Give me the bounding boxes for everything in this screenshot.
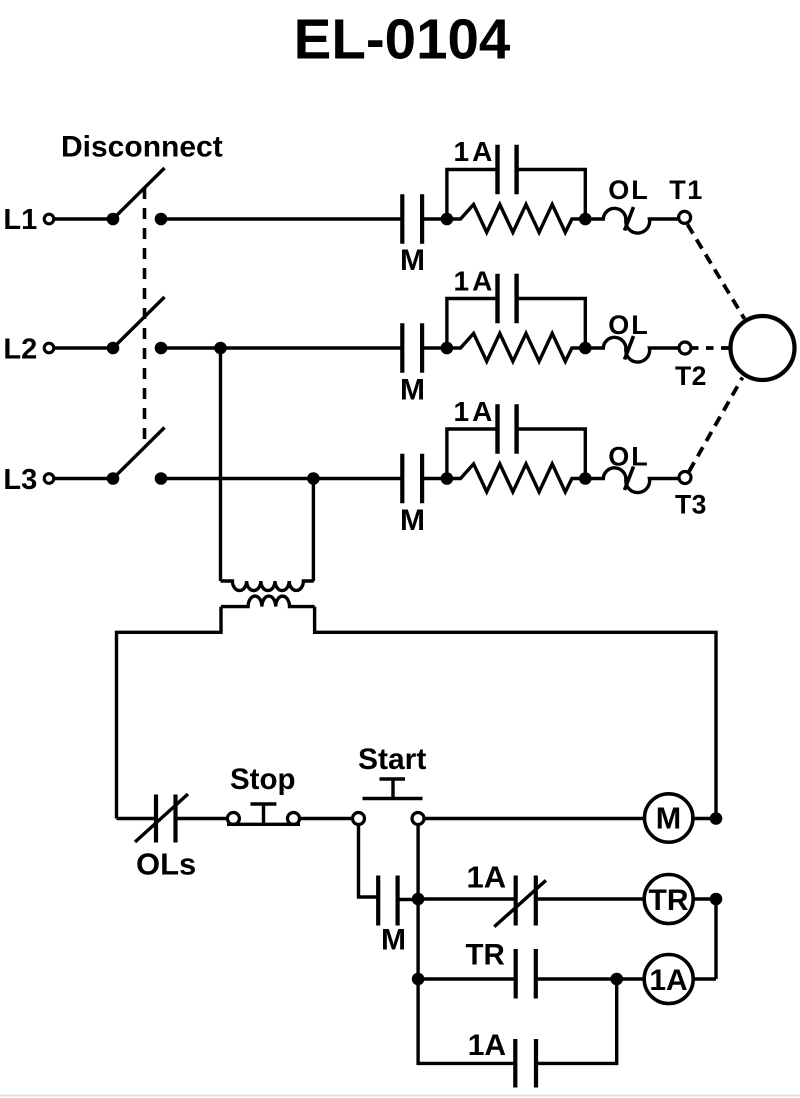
wire L3 terminal to switch [55,477,114,480]
overload heater OL pole 3 [585,468,679,493]
contact 1A normally closed [494,876,546,927]
wire to contact 1A NC [418,897,516,900]
capacitor-contact 1A bypass pole 1 [447,145,585,219]
disconnect switch blade pole 3 [113,428,165,479]
wire L1 terminal to switch [55,217,114,220]
overload heater OL pole 2 [585,337,679,362]
junction dot resistor right pole 3 [579,472,592,485]
terminal L1 [44,214,54,224]
svg-text:M: M [381,923,406,956]
junction dot resistor right pole 2 [579,342,592,355]
junction dot L2 switch right [155,342,168,355]
terminal L3 [44,474,54,484]
contact TR timed [516,949,536,999]
wire coil TR to rail [693,897,716,900]
contact M pole 3 [402,454,447,504]
contact M pole 2 [402,323,447,373]
svg-text:EL-0104: EL-0104 [294,8,511,71]
svg-text:1A: 1A [649,964,687,997]
terminal T3 [679,472,691,484]
junction dot 1A bypass right [610,973,623,986]
svg-text:TR: TR [649,884,689,917]
wire transformer primary left tap [219,348,222,581]
contact M pole 1 [402,194,447,244]
wire L1 to contact M [161,217,402,220]
coil TR [644,875,693,924]
svg-text:1A: 1A [468,1029,506,1062]
wire Start left leg down [359,825,379,898]
junction dot L1 switch left [107,213,120,226]
dashed lead T2 to motor [691,346,729,350]
wire secondary right to control rail [315,607,716,819]
svg-text:1A: 1A [454,265,496,296]
svg-text:OL: OL [608,310,650,340]
pushbutton Start [353,779,425,825]
contact M auxiliary [378,876,418,926]
coil M [645,794,693,842]
wire transformer primary right tap [312,479,315,582]
motor circle [731,316,795,380]
svg-text:M: M [400,504,425,537]
transformer primary winding [221,581,314,591]
svg-text:1A: 1A [467,859,507,894]
terminal T2 [679,342,691,354]
wire to contact TR [418,977,516,980]
junction dot M aux to TR branch [412,893,425,906]
junction dot L2 switch left [107,342,120,355]
resistor pole 1 [447,204,585,232]
disconnect mechanical linkage dashed line [143,188,147,447]
wire L3 to contact M [161,477,402,480]
wire branch down to TR contact row [416,899,419,979]
contact 1A holding [515,1039,536,1088]
junction dot coil M rail [710,812,723,825]
wire contact 1A to coil TR [536,897,645,900]
svg-text:L1: L1 [3,204,37,236]
wire coil M to rail [693,817,716,820]
svg-text:1A: 1A [454,396,496,427]
svg-text:Stop: Stop [230,763,296,796]
resistor pole 3 [447,464,585,492]
svg-text:OL: OL [608,175,650,205]
svg-text:T1: T1 [669,175,704,205]
svg-text:OLs: OLs [136,847,196,882]
transformer secondary winding [221,596,315,607]
junction dot TR contact row left [412,973,425,986]
junction dot coil TR rail [710,893,723,906]
junction dot L1 switch right [155,213,168,226]
wire contact 1A up to TR row [536,979,617,1063]
contact OLs normally closed [135,794,188,843]
terminal L2 [44,343,54,353]
wire OLs to Stop [176,817,228,820]
svg-text:T3: T3 [675,490,707,520]
junction dot L3 switch right [155,472,168,485]
junction dot resistor left pole 2 [441,342,454,355]
wire coil 1A to rail [693,977,716,980]
right rail TR to 1A row [714,899,717,979]
dashed lead T1 to motor [688,225,745,319]
wire secondary left to control rail [117,607,222,819]
svg-text:TR: TR [466,939,505,972]
wire L2 to contact M [161,346,402,349]
capacitor-contact 1A bypass pole 2 [447,274,585,348]
junction dot L3 transformer tap [307,472,320,485]
wire L2 terminal to switch [55,346,114,349]
junction dot resistor left pole 1 [441,213,454,226]
svg-text:M: M [400,244,425,277]
svg-text:L3: L3 [3,464,37,496]
junction dot resistor left pole 3 [441,472,454,485]
wire contact TR to coil 1A [536,977,645,980]
disconnect switch blade pole 2 [113,297,165,348]
wire Start right leg down [416,825,419,900]
svg-text:M: M [400,373,425,406]
coil 1A [644,955,693,1004]
disconnect switch blade pole 1 [113,168,165,219]
svg-text:1A: 1A [454,136,496,167]
wire branch down to 1A contact row [418,979,516,1063]
svg-text:T2: T2 [675,361,707,391]
wire Stop to Start [300,817,353,820]
svg-text:OL: OL [608,441,650,471]
junction dot L3 switch left [107,472,120,485]
wire left rail to OLs contact [117,817,157,820]
dashed lead T3 to motor [689,378,743,472]
svg-text:L2: L2 [3,333,37,365]
svg-text:Start: Start [358,743,426,776]
junction dot resistor right pole 1 [579,213,592,226]
wire Start to coil M [424,817,645,820]
junction dot L2 transformer tap [214,342,227,355]
bottom page edge line [0,1095,800,1097]
capacitor-contact 1A bypass pole 3 [447,404,585,478]
svg-text:M: M [656,801,681,835]
svg-text:Disconnect: Disconnect [61,131,223,164]
terminal T1 [679,211,691,223]
overload heater OL pole 1 [585,208,678,233]
pushbutton Stop [227,804,300,825]
resistor pole 2 [447,333,585,361]
